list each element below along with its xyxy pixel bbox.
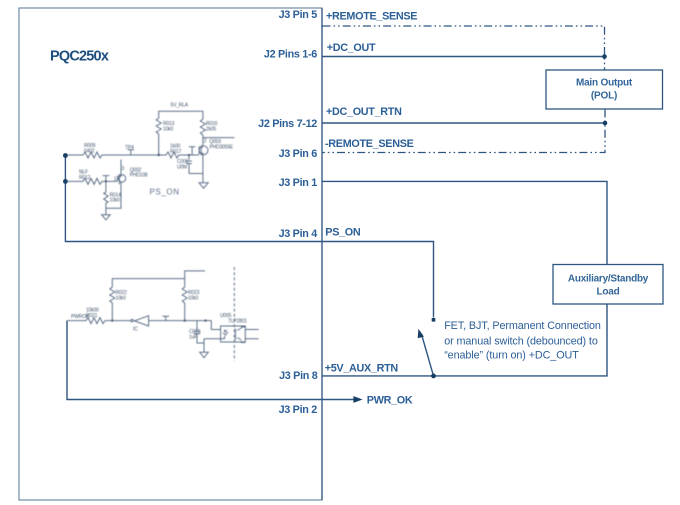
svg-text:10k0: 10k0 [116, 296, 126, 302]
svg-text:R021: R021 [86, 313, 98, 319]
svg-text:+REMOTE_SENSE: +REMOTE_SENSE [326, 10, 417, 22]
svg-text:J3 Pin 4: J3 Pin 4 [279, 228, 318, 240]
svg-text:R017: R017 [170, 149, 182, 155]
svg-text:(POL): (POL) [591, 91, 617, 102]
svg-text:U0M: U0M [177, 165, 187, 171]
svg-text:R012: R012 [79, 175, 91, 181]
svg-text:-REMOTE_SENSE: -REMOTE_SENSE [325, 138, 414, 150]
svg-text:2k05: 2k05 [206, 127, 216, 133]
svg-text:2: 2 [204, 139, 207, 145]
svg-text:J3 Pin 2: J3 Pin 2 [279, 404, 318, 416]
svg-text:+5V_AUX_RTN: +5V_AUX_RTN [325, 362, 399, 374]
svg-text:PQC250x: PQC250x [50, 49, 109, 65]
svg-text:1uF: 1uF [189, 335, 197, 341]
svg-text:TP4: TP4 [125, 145, 134, 151]
svg-text:TLP2801: TLP2801 [228, 319, 247, 325]
svg-text:+DC_OUT_RTN: +DC_OUT_RTN [326, 106, 402, 118]
svg-text:+DC_OUT: +DC_OUT [327, 42, 376, 54]
svg-text:PHD108: PHD108 [130, 172, 148, 178]
svg-text:J2 Pins 1-6: J2 Pins 1-6 [264, 49, 317, 61]
svg-text:J2 Pins 7-12: J2 Pins 7-12 [258, 118, 317, 130]
svg-text:J3 Pin 1: J3 Pin 1 [279, 177, 318, 189]
svg-text:J3 Pin 5: J3 Pin 5 [279, 9, 318, 21]
svg-text:PHD3055E: PHD3055E [210, 145, 234, 151]
svg-text:PS_ON: PS_ON [150, 188, 180, 197]
svg-text:FET, BJT, Permanent Connection: FET, BJT, Permanent Connection [444, 320, 601, 332]
svg-text:Load: Load [597, 287, 620, 298]
svg-text:J3 Pin 8: J3 Pin 8 [279, 370, 318, 382]
svg-text:Main Output: Main Output [576, 78, 633, 89]
svg-text:5V_RLA: 5V_RLA [171, 103, 189, 109]
svg-text:IC: IC [133, 327, 138, 333]
svg-text:10k0: 10k0 [163, 127, 173, 133]
svg-text:or manual switch (debounced) t: or manual switch (debounced) to [444, 336, 598, 348]
svg-text:PS_ON: PS_ON [325, 227, 361, 239]
svg-text:3: 3 [122, 166, 125, 172]
svg-text:Auxiliary/Standby: Auxiliary/Standby [568, 274, 649, 285]
svg-text:10k0: 10k0 [110, 198, 120, 204]
svg-text:J3 Pin 6: J3 Pin 6 [279, 148, 318, 160]
svg-text:1: 1 [114, 177, 117, 183]
svg-text:10k0: 10k0 [188, 296, 198, 302]
svg-text:“enable” (turn on) +DC_OUT: “enable” (turn on) +DC_OUT [444, 350, 579, 362]
svg-text:0402: 0402 [84, 149, 95, 155]
svg-text:PWR_OK: PWR_OK [367, 395, 413, 407]
